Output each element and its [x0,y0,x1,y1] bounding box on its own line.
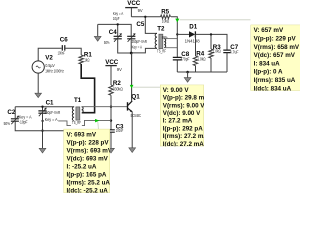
wire R5 to corner down to D1 node [171,17,177,35]
svg-text:I: 834 uA: I: 834 uA [254,60,281,67]
svg-text:V(dc): 657 mV: V(dc): 657 mV [254,52,296,59]
probe arrow (green, T1 bottom) [95,119,99,123]
svg-text:-10pF: -10pF [19,119,28,124]
wire T2 secondary bottom to detector vertical [165,47,178,49]
svg-text:V(dc): 9.00 V: V(dc): 9.00 V [163,110,201,117]
svg-text:50%: 50% [104,40,110,45]
svg-text:Q1: Q1 [131,94,140,101]
svg-text:V(p-p): 229 pV: V(p-p): 229 pV [254,36,297,43]
svg-text:I(rms): 835 uA: I(rms): 835 uA [254,77,296,84]
probe leader to middle box [133,86,160,88]
source V2 [32,55,64,74]
VCC (top) [125,0,143,17]
svg-text:I: 27.2 mA: I: 27.2 mA [163,118,193,125]
diode D1 [184,24,200,44]
svg-text:V(p-p): 29.8 mV: V(p-p): 29.8 mV [163,95,209,102]
svg-text:I(p-p): 0 A: I(p-p): 0 A [254,69,283,76]
wire T1 secondary top to Q1 base [82,106,127,108]
svg-text:330kΩ: 330kΩ [113,86,123,91]
svg-text:9V: 9V [138,8,143,13]
VCC (mid, R2) [105,59,122,85]
probe box 3 (right) [251,25,303,93]
wire tank top rail [15,106,74,108]
junction C3/tank wire [110,119,112,121]
wire C6 to R1 [65,48,81,55]
ground (Q1 emitter) [129,148,136,153]
svg-text:VCC: VCC [127,0,141,7]
svg-text:1.0kΩ: 1.0kΩ [213,49,221,54]
svg-text:1N4148: 1N4148 [185,38,201,43]
probe leader to right box [180,19,251,21]
svg-text:V(rms): 693 mV: V(rms): 693 mV [67,147,113,154]
probe arrow (green, R5 output) [175,19,179,23]
wire V2 top to C6 [38,48,61,61]
svg-text:R5: R5 [161,9,169,16]
svg-text:V(rms): 658 mV: V(rms): 658 mV [254,44,300,51]
svg-text:TS_RF: TS_RF [72,120,81,125]
wire T2 primary top from VCC rail [145,17,157,34]
svg-text:V: 9.00 V: V: 9.00 V [163,87,190,94]
svg-text:I(p-p): 165 pA: I(p-p): 165 pA [67,171,107,178]
ground (C3) [108,148,115,153]
svg-text:470pF: 470pF [180,57,189,62]
svg-text:0.5µV: 0.5µV [45,63,55,68]
junction collector node [130,52,133,55]
svg-text:T1: T1 [74,97,82,104]
resistor R1 [79,51,92,64]
svg-text:350pF-VAR: 350pF-VAR [44,110,60,115]
svg-text:I(rms): 27.2 mA: I(rms): 27.2 mA [163,133,209,140]
svg-text:1MHz 1000Hz: 1MHz 1000Hz [45,69,64,74]
probe box 2 (middle) [160,85,209,148]
variable capacitor C5 [127,21,147,49]
wire T2 primary bottom jog to collector junction [131,48,157,53]
wire collector node down to Q1 [131,53,133,101]
wire C3 bottom to ground [110,132,112,148]
label TS_RF (T1) [71,120,82,126]
wire R2 bottom to base node and down to C3 [110,95,112,130]
probe leader to bottom-left box [97,122,100,130]
capacitor C3 [107,124,124,134]
resistor R5 [161,9,171,24]
wire ground rail to C4/C5 tops [98,24,132,36]
svg-text:V(dc): 693 mV: V(dc): 693 mV [67,155,109,162]
junction D1 anode [176,33,178,35]
svg-text:9V: 9V [117,67,122,72]
transformer T1 [72,97,83,121]
svg-text:I(p-p): 292 pA: I(p-p): 292 pA [163,125,203,132]
wire V2 bottom [37,73,39,93]
svg-text:350pF-VAR: 350pF-VAR [132,39,147,44]
svg-text:V(p-p): 228 pV: V(p-p): 228 pV [67,139,110,146]
wire C1 top [42,107,44,111]
svg-text:10kΩ: 10kΩ [162,19,170,24]
wire R1 to T1 secondary bottom (black jog) [81,64,94,113]
svg-text:100nF: 100nF [58,50,66,55]
junction tank wire at C1 [41,120,43,122]
wire tank bottom jog under T1 to C3 node [43,120,112,125]
transformer T2 [155,26,168,54]
svg-text:V(rms): 9.00 V: V(rms): 9.00 V [163,102,206,109]
wire detector bottom rail [177,71,227,73]
wire D1 cathode to C7 corner [196,34,227,50]
svg-text:V2: V2 [45,55,53,62]
probe box 1 (bottom left) [64,129,113,194]
svg-text:C4: C4 [109,29,117,36]
wire C2 branch [15,107,64,131]
svg-text:C1: C1 [46,99,54,106]
svg-text:Key = A: Key = A [132,44,143,49]
resistor R3 [209,34,221,72]
svg-text:1kΩ: 1kΩ [84,57,89,62]
wire VCC rail to R5 [131,16,160,18]
svg-text:C5: C5 [136,21,144,28]
probe arrow (green, collector) [130,85,134,89]
svg-text:V: 657 mV: V: 657 mV [254,27,284,34]
svg-text:100nF: 100nF [116,128,124,133]
junction T2 top branch [144,16,146,18]
svg-text:TS_RF: TS_RF [157,49,166,54]
wire C1 bottom to ground [42,113,44,148]
wire D1 anode [177,33,189,35]
svg-text:4.7uF: 4.7uF [230,50,239,55]
svg-text:10pF: 10pF [113,16,120,21]
svg-text:I: -25.2 uA: I: -25.2 uA [67,163,97,170]
svg-text:C2: C2 [7,109,15,116]
capacitor C7 [223,44,239,72]
variable capacitor C1 [38,99,60,122]
wire C4 bottom to collector junction [118,39,132,53]
svg-text:C6: C6 [60,37,68,44]
svg-text:I(rms): 25.2 uA: I(rms): 25.2 uA [67,179,111,186]
wire D1 anode node down through C8 [176,34,178,72]
junction base node [110,106,112,108]
ground (C4/C5 rail) [94,24,101,41]
wire T2 secondary top to detector vertical [165,38,178,40]
variable capacitor C2 [4,109,32,126]
capacitor C8 [173,51,190,62]
svg-text:1.0kΩ: 1.0kΩ [198,56,206,61]
ground (detector) [184,72,191,82]
wire Q1 emitter to ground [131,112,133,148]
resistor R2 [109,80,123,95]
wire C5 bottom down to collector junction [130,39,132,53]
ground (V2) [35,93,42,97]
transistor Q1 [128,94,142,119]
junction ground stub [186,71,189,74]
svg-text:D1: D1 [189,24,197,31]
variable capacitor C4 [104,11,124,45]
resistor R4 [193,34,205,72]
junction C4 top [117,23,119,25]
svg-text:T2: T2 [157,26,165,33]
junction C1 top [41,106,43,108]
svg-text:Key = A: Key = A [45,117,58,122]
junction C1/C2 bottom rail [41,130,43,132]
svg-text:V: 693 mV: V: 693 mV [67,131,97,138]
junction R3 top [210,33,212,35]
ground (tank) [39,148,46,153]
svg-text:50%: 50% [4,121,11,126]
capacitor C6 [58,37,69,56]
